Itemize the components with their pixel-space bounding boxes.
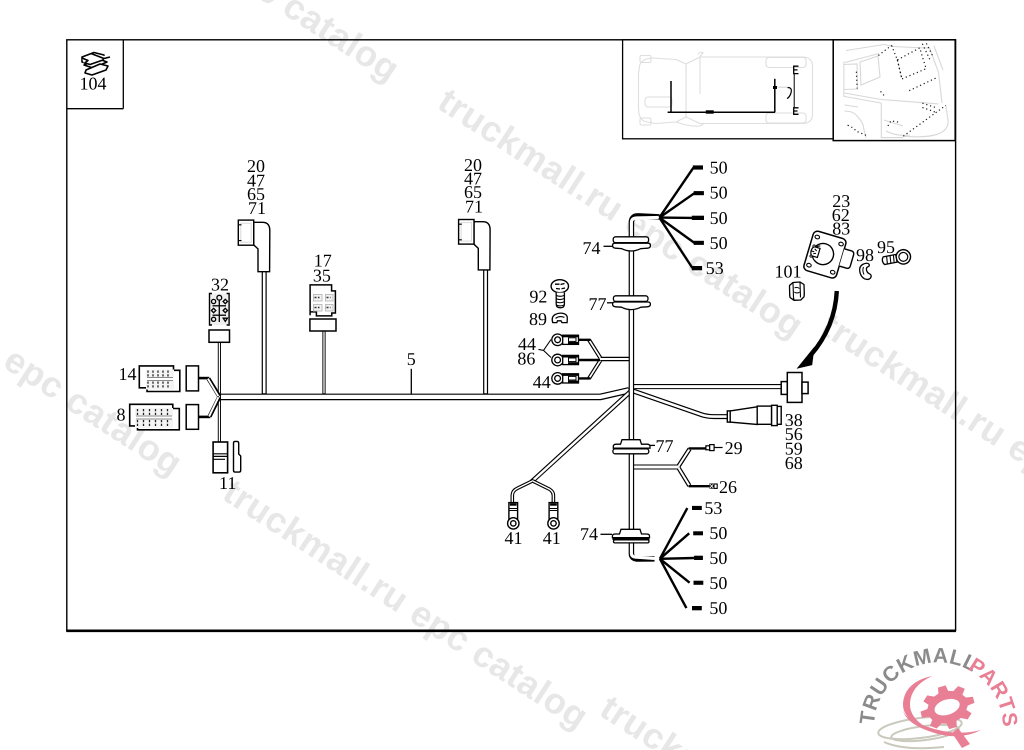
grommet 74 top <box>613 237 651 251</box>
trunk wire vertical <box>631 216 659 559</box>
connector 14 block <box>139 366 180 392</box>
connector 14 pins <box>146 370 174 390</box>
flange boss cylinder <box>839 249 854 269</box>
leader 74 top <box>604 245 613 247</box>
bottom fan labels 53 50 50 50 50 <box>704 498 727 618</box>
wire to terminals 29 26 <box>633 448 709 486</box>
terminal 29 icon <box>706 445 723 451</box>
leader 77 lower <box>650 444 655 446</box>
wire junction to terminals 41 <box>512 392 630 504</box>
watermark right <box>815 307 1024 569</box>
elbow connector 1 (20 47 65 71) <box>238 220 269 272</box>
connector 14 end rect <box>186 366 198 391</box>
main bus wire <box>220 390 630 397</box>
wire to plug connector 38 group <box>633 384 782 389</box>
bottom fan wires <box>660 508 695 608</box>
pointer line 5 <box>410 369 412 394</box>
watermark fragment top <box>232 0 405 88</box>
labels 20 47 65 71 stack 1 <box>247 156 266 218</box>
bottom terminal bars <box>692 506 703 610</box>
outer border frame <box>66 40 956 631</box>
watermark bottom <box>594 689 971 750</box>
nut 101 <box>790 282 805 300</box>
leader 74 lower <box>601 533 613 535</box>
part 11 body <box>213 442 228 473</box>
connector 32 block <box>210 294 230 326</box>
grommet 77 lower <box>613 440 650 454</box>
rear view box <box>833 40 955 141</box>
cone connector 38 <box>727 405 781 425</box>
labels 41 41 <box>505 528 561 548</box>
wire from connector 14 <box>199 378 220 396</box>
connector 17 35 block <box>310 285 335 316</box>
wire from connector 17 35 <box>322 331 325 395</box>
connector 17 35 lower rect <box>310 319 336 331</box>
terminal 41 right <box>548 503 559 530</box>
grommet 74 lower <box>612 529 649 543</box>
curved arrow <box>799 291 837 368</box>
truck top-view outline (light) <box>639 52 813 126</box>
labels 38 56 59 68 <box>785 410 803 473</box>
top fan labels 50 50 50 50 53 <box>706 157 728 278</box>
top terminal bars <box>692 165 704 270</box>
wire from connector 8 <box>199 397 220 417</box>
logo swirl shadow <box>877 713 963 748</box>
leader 77 top <box>607 302 613 304</box>
labels 23 62 83 <box>832 191 850 239</box>
terminal 26 icon <box>709 484 717 489</box>
clip icon 104 <box>82 53 110 76</box>
part 11 side clip <box>234 441 241 472</box>
plug connector 38 box <box>781 373 808 403</box>
wires from lugs 44 86 <box>579 340 631 379</box>
truck rear-view dotted lines <box>848 43 946 136</box>
connector 32 lower rect <box>209 330 230 342</box>
terminal 41 left <box>508 503 519 530</box>
wire junction to cone connector <box>632 391 728 417</box>
connector symbols in top view <box>778 66 799 114</box>
lug 44 bottom <box>552 373 579 385</box>
wire from elbow connector 1 <box>262 272 267 395</box>
connector 8 pins <box>135 408 173 428</box>
labels 17 35 <box>313 250 332 285</box>
part box 104 <box>67 40 124 109</box>
truck rear-view sketch light lines <box>844 45 948 138</box>
watermark left <box>0 323 188 482</box>
lug 86 middle <box>552 354 579 366</box>
connector 8 block <box>130 404 180 430</box>
connector 8 end rect <box>186 405 198 430</box>
grommet 77 top <box>613 296 651 310</box>
labels 20 47 65 71 stack 2 <box>464 155 483 216</box>
wire from connector 32 down to part 11 <box>218 342 221 442</box>
screw 92 <box>551 280 568 308</box>
flange plate 23 62 83 <box>803 230 847 279</box>
bolt 95 <box>881 248 912 268</box>
harness route in top view <box>668 79 777 113</box>
logo swoosh <box>903 676 981 736</box>
clip 89 <box>552 313 567 322</box>
lug 44 top <box>552 334 579 346</box>
wire from elbow connector 2 <box>483 270 488 395</box>
top fan wires to terminals <box>659 168 694 269</box>
svg-text:PARTS: PARTS <box>965 654 1021 728</box>
leader lines 44 86 <box>539 340 552 358</box>
connector 17 35 inner pins <box>314 295 334 312</box>
clip 98 <box>860 263 872 279</box>
watermark lower center <box>217 473 594 735</box>
logo gear stem <box>952 728 970 748</box>
logo gear <box>915 678 981 736</box>
elbow connector 2 (20 47 65 71) <box>459 220 491 270</box>
watermark center <box>432 82 809 344</box>
labels 44 86 44 <box>517 334 550 392</box>
top view box <box>623 40 834 139</box>
